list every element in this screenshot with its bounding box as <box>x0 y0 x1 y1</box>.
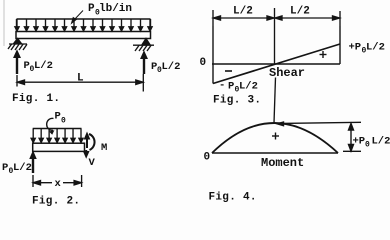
span dimension L <box>17 74 143 92</box>
shear axis 0 line <box>212 63 340 65</box>
moment baseline <box>212 152 338 154</box>
left reaction arrow (Fig.2) <box>30 152 36 174</box>
svg-text:V: V <box>89 157 96 169</box>
plus sign (moment) <box>272 133 279 140</box>
load label P0 (Fig.2) <box>55 111 67 126</box>
svg-text:lb/in: lb/in <box>99 3 132 15</box>
svg-text:L/2: L/2 <box>290 6 310 18</box>
svg-text:L/2: L/2 <box>372 136 390 148</box>
moment arc M (Fig.2) <box>89 134 95 150</box>
svg-text:Fig. 2.: Fig. 2. <box>32 196 80 208</box>
svg-text:0: 0 <box>61 117 66 126</box>
svg-text:x: x <box>55 178 62 190</box>
svg-text:M: M <box>101 142 107 154</box>
right reaction arrow P0L/2 <box>141 52 147 75</box>
svg-text:P: P <box>88 3 95 15</box>
moment parabola <box>212 123 338 153</box>
svg-text:Shear: Shear <box>269 66 305 80</box>
right pin support <box>133 39 154 52</box>
reaction label P0L/2 (Fig.2) <box>2 162 32 176</box>
svg-text:L/2: L/2 <box>233 6 253 18</box>
curved leader hook for P0 <box>47 118 55 134</box>
svg-text:Fig. 1.: Fig. 1. <box>12 93 60 105</box>
svg-text:L/2: L/2 <box>13 162 32 174</box>
distributed load (Fig.2) <box>33 128 82 130</box>
svg-text:Fig. 3.: Fig. 3. <box>213 95 261 107</box>
right ordinate short <box>339 26 341 64</box>
svg-text:L/2: L/2 <box>239 81 258 93</box>
dimension x (Fig.2) <box>33 175 82 187</box>
label +P0L/2 <box>349 42 385 56</box>
svg-text:P: P <box>2 162 8 174</box>
distributed load w=P0 lb/in on beam (Fig.1) <box>17 19 151 31</box>
label +P0 L/2 (moment) <box>353 136 390 150</box>
svg-text:L/2: L/2 <box>162 61 181 73</box>
leader arrow to load <box>72 11 84 24</box>
svg-text:0: 0 <box>365 141 370 150</box>
minus sign (shear) <box>225 70 232 72</box>
label P0 lb/in <box>88 3 132 18</box>
svg-text:P: P <box>228 81 234 93</box>
svg-text:-: - <box>219 80 225 92</box>
svg-text:0: 0 <box>200 57 207 69</box>
scan streak left edge <box>3 0 5 46</box>
plus sign (shear) <box>320 51 327 58</box>
left pin support <box>8 39 27 51</box>
right reaction label P0L/2 <box>151 61 180 75</box>
center line (Fig.3 to Fig.4) <box>274 26 276 123</box>
svg-text:L/2: L/2 <box>34 60 53 72</box>
beam Fig.1 <box>16 32 151 39</box>
svg-text:Fig. 4.: Fig. 4. <box>209 192 257 204</box>
load arrows Fig.1 <box>15 19 152 31</box>
svg-text:+P: +P <box>349 42 362 54</box>
label -P0L/2 <box>219 80 258 95</box>
top dimension ticks (Fig.3) <box>213 8 340 26</box>
svg-text:L: L <box>77 73 84 85</box>
beam segment (Fig.2) <box>33 143 85 151</box>
left reaction arrow P0L/2 <box>14 51 20 75</box>
shear cut up arrow (Fig.2) <box>84 133 89 148</box>
svg-text:Moment: Moment <box>261 156 304 170</box>
svg-text:L/2: L/2 <box>366 42 385 54</box>
top reference line with arrow <box>277 122 361 126</box>
svg-text:P: P <box>55 111 61 123</box>
left ordinate line (Fig.3) <box>212 26 214 84</box>
svg-text:0: 0 <box>204 152 211 164</box>
shear line (sloped) <box>213 44 340 84</box>
shear arrow V (Fig.2) <box>84 150 89 158</box>
vertical dimension arrow (moment peak) <box>343 124 361 152</box>
left reaction label P0L/2 <box>24 60 53 74</box>
svg-text:+P: +P <box>353 136 366 148</box>
